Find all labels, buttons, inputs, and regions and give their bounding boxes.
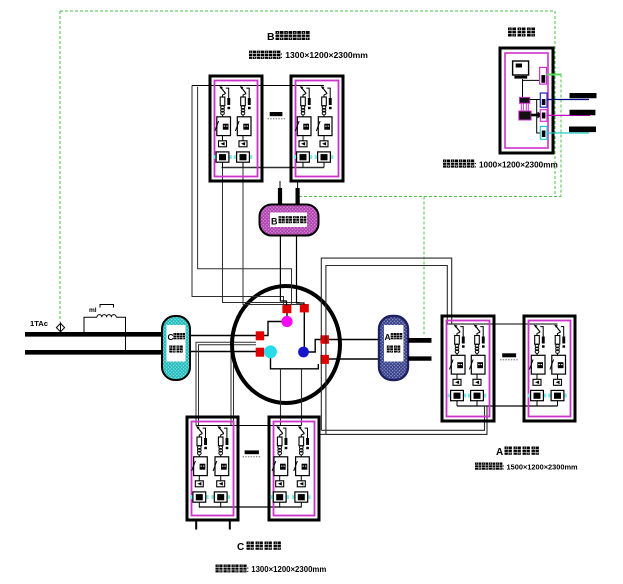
electrode node cyan — [264, 345, 277, 358]
arrow from regulator — [531, 112, 543, 118]
electrode node magenta — [281, 316, 292, 327]
label frame size C 1300x1200x2300 — [216, 565, 327, 575]
wire return path below furnace — [321, 344, 487, 434]
separator mark between B cabinets — [268, 112, 286, 119]
separator mark between C cabinets — [243, 450, 261, 456]
wire right-upper node to A pill — [329, 339, 379, 341]
busbar A lower — [408, 356, 432, 360]
branch B2-1 — [294, 86, 313, 167]
cabinet C2 frame — [269, 417, 319, 520]
control dashed wire: from control cabinet CT block — [560, 75, 562, 197]
control dashed wire: right drop at x=554.5 — [554, 11, 556, 197]
svg-text:: 1300×1200×2300mm: : 1300×1200×2300mm — [280, 50, 368, 60]
output module blue — [540, 93, 547, 107]
branch C1-1 — [190, 426, 209, 507]
wire monitor to CT block — [522, 79, 524, 97]
node square left-upper — [256, 331, 265, 340]
svg-text:C: C — [168, 332, 174, 342]
output module cyan — [540, 126, 547, 139]
svg-text:B: B — [267, 31, 275, 43]
internal top bus B cabinets — [192, 85, 324, 87]
wire B1 branch returns to furnace — [223, 168, 303, 305]
wire B pill to furnace right — [297, 236, 305, 306]
wire C2 return to right loop — [319, 433, 326, 435]
label frame size B 1300x1200x2300 — [249, 50, 368, 60]
svg-text:A: A — [496, 447, 503, 458]
internal bottom bus C cabinets — [199, 506, 301, 508]
svg-text:ml: ml — [89, 307, 97, 314]
wire monitor to top-right block — [523, 79, 540, 81]
node square top-left — [282, 305, 291, 313]
svg-text:: 1000×1200×2300mm: : 1000×1200×2300mm — [474, 161, 558, 170]
node square right-lower — [320, 355, 329, 364]
separator mark between A cabinets — [500, 353, 518, 360]
svg-text:A: A — [385, 332, 391, 342]
internal bottom bus A cabinets — [457, 405, 558, 407]
label A-phase compensation cabinet — [496, 447, 539, 459]
svg-text:1TAc: 1TAc — [30, 319, 48, 328]
busbar A upper — [408, 338, 432, 343]
node square right-upper — [320, 335, 329, 344]
internal bottom bus B cabinets — [222, 167, 325, 169]
green CT link wire — [547, 74, 562, 76]
series reactor ml bypass — [84, 305, 126, 353]
wire pair to C-phase cabinet 1 — [196, 342, 256, 425]
branch B1-1 — [213, 86, 232, 167]
signal wire magenta — [547, 114, 590, 116]
branch A2-1 — [528, 325, 547, 406]
wire C pill to node squares lower — [190, 351, 256, 353]
cabinet A2 frame — [524, 316, 575, 421]
cabinet B2 frame — [291, 76, 343, 181]
electrode node blue — [298, 347, 309, 358]
branch A2-2 — [548, 325, 567, 406]
wire right-lower node to A pill — [329, 358, 379, 360]
svg-text:B: B — [271, 217, 278, 227]
furnace load circle — [232, 286, 340, 403]
CT input block — [540, 67, 547, 84]
busbar stub to B pill right — [296, 188, 300, 205]
wires inside furnace circle — [260, 308, 325, 369]
branch B2-2 — [315, 86, 334, 167]
wire cabinet to stub right — [297, 181, 299, 189]
wire loop to A cabinets feed 2 — [326, 266, 447, 356]
busbar sample 2 — [570, 110, 596, 115]
wire C pill to node squares upper — [190, 335, 256, 337]
label B-phase compensation cabinet — [267, 31, 310, 43]
wire feeds to C cabinet 2 — [281, 369, 302, 426]
stub below C1 right — [229, 521, 231, 530]
svg-text:: 1500×1200×2300mm: : 1500×1200×2300mm — [502, 463, 578, 472]
control cabinet frame — [500, 48, 553, 153]
signal wire navy — [547, 99, 589, 101]
internal top bus C cabinets — [196, 425, 302, 427]
busbar sample 3 — [569, 127, 596, 133]
svg-text:C: C — [237, 542, 244, 553]
wire feed into B cabinets — [192, 86, 292, 306]
cabinet C1 frame — [187, 417, 238, 520]
branch C1-2 — [211, 426, 230, 507]
control dashed wire: drop to A-phase transformer — [423, 197, 425, 334]
label frame size control 1000x1200x2300 — [443, 160, 558, 170]
branch A1-1 — [448, 325, 467, 406]
transformer C pill — [162, 316, 190, 380]
cabinet A1 frame — [442, 316, 494, 421]
node square left-lower — [256, 348, 265, 357]
signal wire cyan — [547, 132, 589, 134]
busbar stub to B pill left — [278, 188, 282, 205]
internal top bus A cabinets — [447, 323, 557, 325]
regulator connector pins — [521, 103, 523, 111]
label C-phase compensation cabinet — [237, 542, 281, 554]
wire cabinet to stub left — [279, 181, 281, 189]
regulator block 1 — [520, 97, 530, 103]
controller monitor — [513, 61, 529, 79]
transformer B pill — [260, 205, 319, 236]
stub below C1 left — [195, 521, 197, 530]
label control cabinet — [508, 28, 535, 37]
node square top-right — [300, 304, 309, 312]
current transformer 1TAc diamond — [56, 322, 64, 334]
wire loop to A cabinets feed 1 — [321, 258, 451, 339]
wire link column — [530, 100, 541, 134]
busbar sample 1 — [570, 93, 597, 98]
CT input block core — [541, 75, 545, 83]
branch B1-2 — [234, 86, 253, 167]
output module magenta — [540, 110, 547, 122]
branch C2-1 — [270, 426, 289, 507]
label frame size A 1500x1200x2300 — [475, 463, 578, 472]
cabinet B1 frame — [210, 76, 262, 181]
control dashed wire: horizontal run y=196.6 — [299, 196, 561, 198]
control dashed wire: left drop to 1TAc — [59, 11, 61, 322]
transformer A pill — [379, 316, 408, 380]
incoming busbar L1 — [25, 332, 163, 337]
svg-text:: 1300×1200×2300mm: : 1300×1200×2300mm — [247, 565, 327, 574]
regulator block 2 — [519, 111, 531, 120]
branch C2-2 — [292, 426, 311, 507]
branch A1-2 — [468, 325, 487, 406]
control dashed wire: top border — [60, 10, 555, 12]
incoming busbar L2 — [25, 350, 163, 355]
wire B pill to furnace left — [280, 236, 286, 306]
